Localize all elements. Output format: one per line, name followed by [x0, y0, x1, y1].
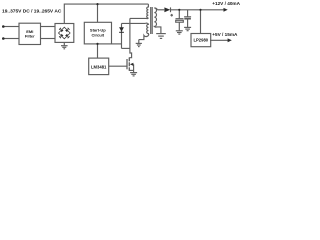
svg-text:LM3481: LM3481 — [91, 64, 107, 69]
svg-text:+5V / 15mA: +5V / 15mA — [212, 32, 238, 37]
svg-text:Circuit: Circuit — [91, 32, 104, 37]
svg-text:LP2980: LP2980 — [193, 38, 208, 43]
svg-text:+12V / 40mA: +12V / 40mA — [212, 1, 240, 6]
svg-text:19..375V DC / 19..265V AC: 19..375V DC / 19..265V AC — [2, 8, 62, 14]
svg-text:Filter: Filter — [25, 34, 35, 39]
